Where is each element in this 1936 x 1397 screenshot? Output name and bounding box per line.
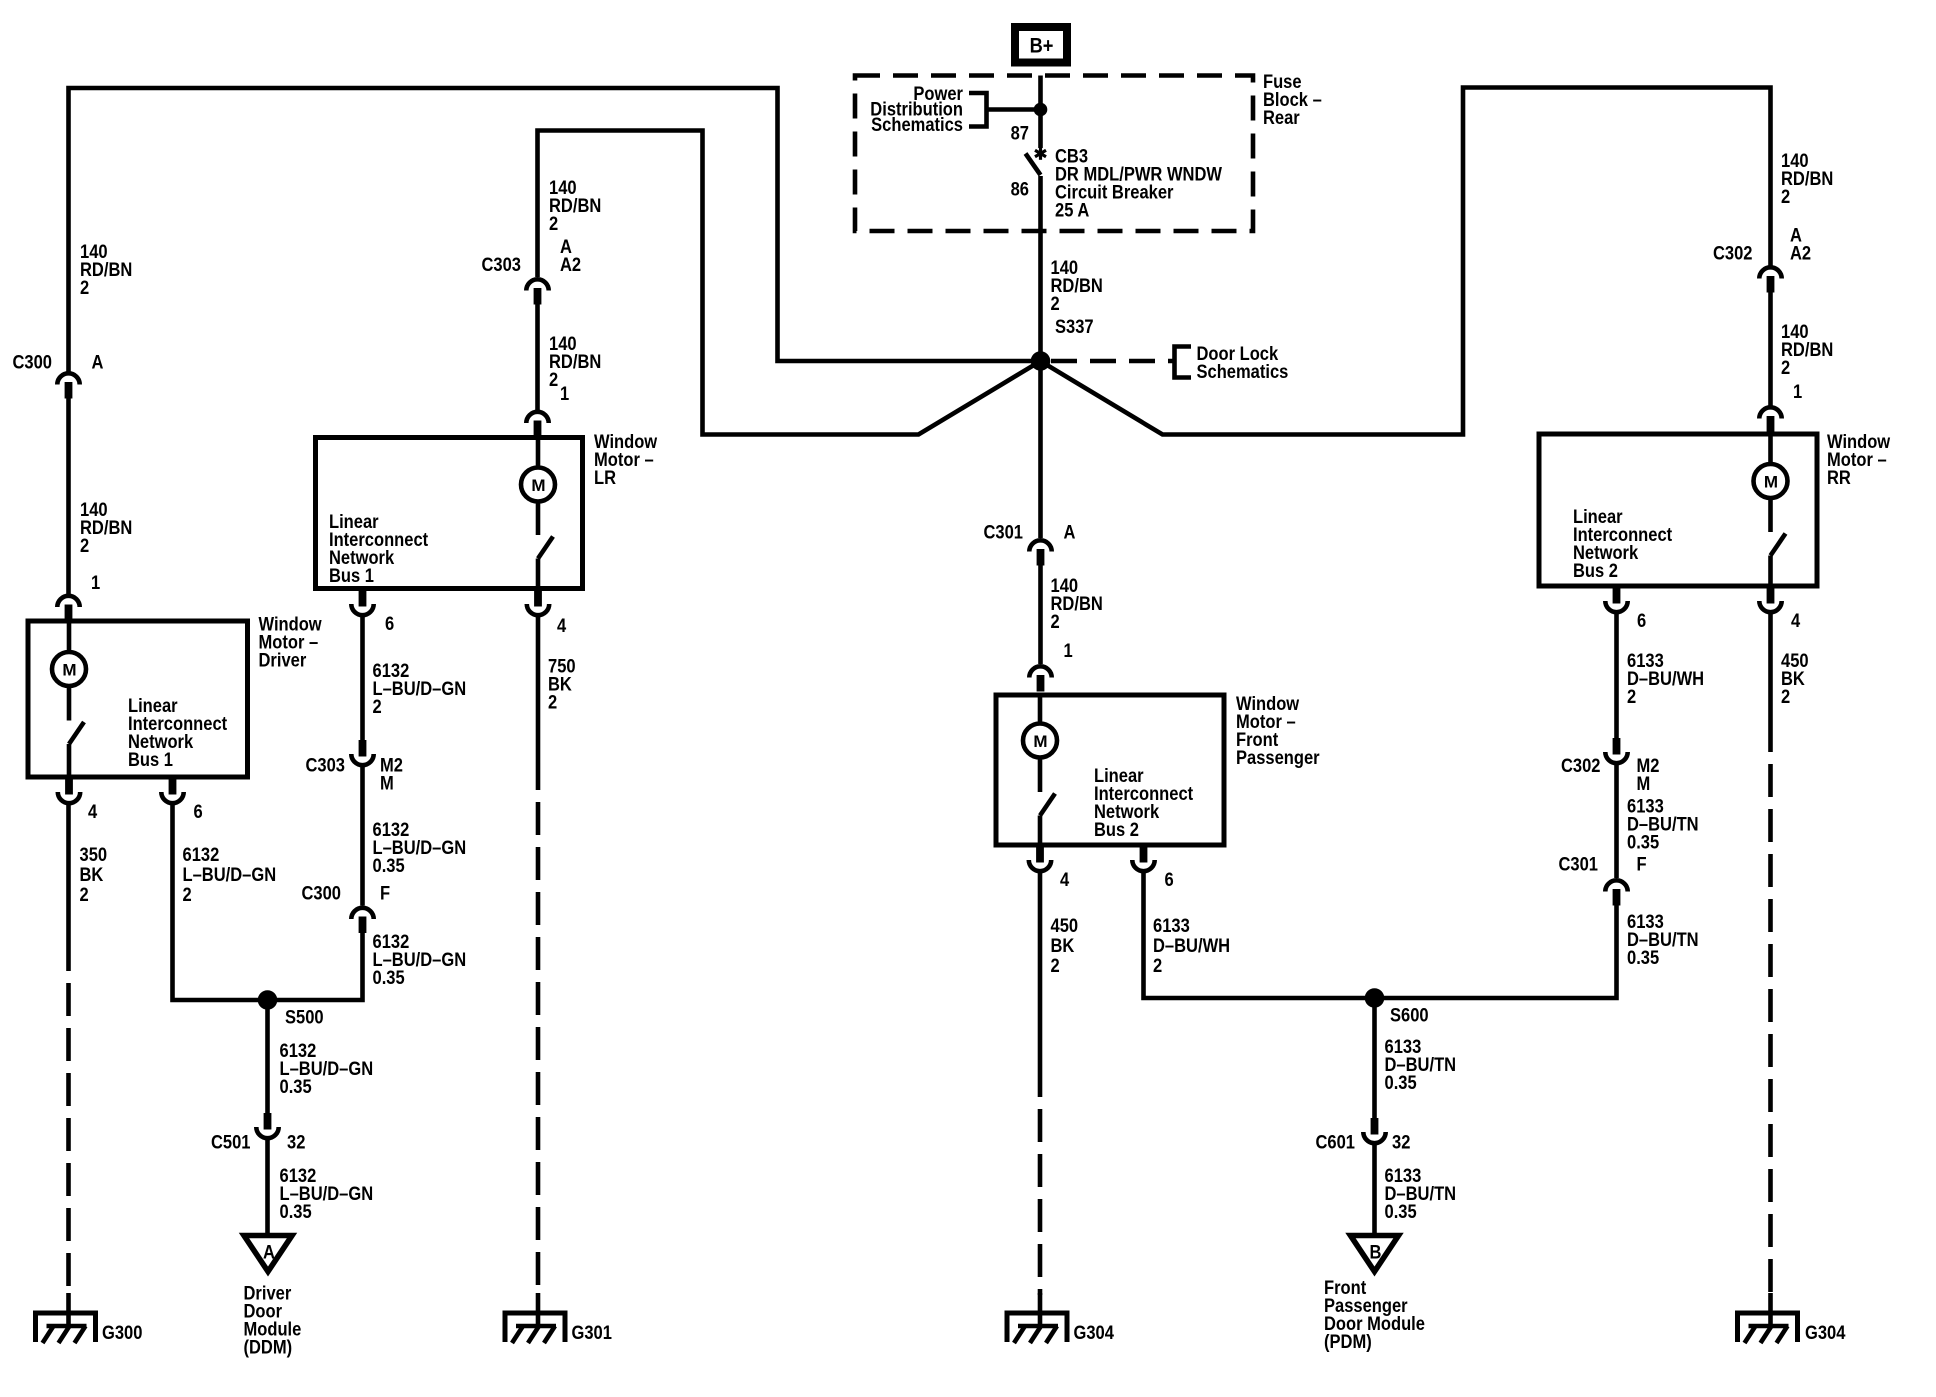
connector C302 cavity A/A2 <box>1759 267 1781 292</box>
wire FP pin 6 down and right to S600 <box>1144 873 1366 998</box>
connector pin 1 RR window motor <box>1759 407 1781 432</box>
battery feed B+ terminal box <box>1015 27 1067 63</box>
circuit breaker CB3 reset asterisk <box>1035 147 1046 160</box>
connector pin 1 front passenger window motor <box>1029 666 1051 691</box>
wire C501 to DDM triangle <box>265 1140 270 1234</box>
driver motor supply stub <box>67 621 72 652</box>
svg-text:B+: B+ <box>1030 34 1054 57</box>
wire LR pin 6 to C303 M2 <box>360 617 365 740</box>
ground G300 stub <box>66 1293 71 1327</box>
svg-text:S600: S600 <box>1390 1004 1429 1025</box>
door lock schematics reference bracket <box>1175 347 1192 378</box>
node feed junction dot <box>1034 103 1048 117</box>
connector pin 4 RR window motor <box>1759 587 1781 612</box>
wire driver pin 6 down and right to S500 <box>173 805 259 1000</box>
wire breaker 86 down to splice S337 <box>1038 176 1043 355</box>
svg-text:1: 1 <box>1064 640 1073 661</box>
connector C301 cavity A <box>1029 540 1051 565</box>
svg-text:G304: G304 <box>1805 1322 1846 1343</box>
ground G304 centre symbol <box>1007 1313 1067 1343</box>
svg-text:A2: A2 <box>560 254 581 275</box>
svg-text:87: 87 <box>1011 122 1029 143</box>
LR motor wire below M <box>536 502 541 536</box>
svg-text:B: B <box>1370 1241 1382 1262</box>
FP motor breaker blade <box>1040 794 1055 816</box>
circuit breaker CB3 blade <box>1026 154 1041 176</box>
connector C303 cavity M2/M <box>351 740 373 765</box>
svg-text:32: 32 <box>1392 1131 1410 1152</box>
ground G300 symbol <box>36 1313 96 1343</box>
svg-text:A: A <box>263 1241 275 1262</box>
svg-text:G301: G301 <box>572 1322 613 1343</box>
wire bracket to B+ feed <box>987 107 1041 112</box>
svg-text:C501: C501 <box>211 1131 251 1152</box>
connector C301 cavity F <box>1605 880 1627 905</box>
svg-text:G304: G304 <box>1074 1322 1115 1343</box>
svg-text:6: 6 <box>194 801 203 822</box>
svg-text:C301: C301 <box>984 521 1024 542</box>
connector pin 1 LR window motor <box>526 412 548 437</box>
wire S600 down to C601 <box>1372 1007 1377 1118</box>
svg-text:4: 4 <box>1791 610 1800 631</box>
wire RR pin 6 to C302 M2 <box>1614 614 1619 738</box>
svg-text:G300: G300 <box>102 1322 143 1343</box>
svg-text:4: 4 <box>88 801 97 822</box>
svg-text:F: F <box>1637 853 1647 874</box>
svg-text:C302: C302 <box>1713 242 1753 263</box>
connector C601 cavity 32 <box>1363 1118 1385 1143</box>
window motor - RR box <box>1539 434 1817 586</box>
svg-text:M: M <box>531 476 545 495</box>
svg-text:C300: C300 <box>302 882 342 903</box>
window motor - front passenger box <box>996 695 1224 845</box>
wire C303 M to C300 F <box>360 767 365 906</box>
connector C300 cavity A <box>57 373 79 398</box>
svg-text:4: 4 <box>1060 869 1069 890</box>
window motor - LR box <box>316 438 583 589</box>
connector pin 6 driver window motor <box>161 778 183 803</box>
connector pin 6 RR window motor <box>1605 587 1627 612</box>
svg-text:1: 1 <box>1793 381 1802 402</box>
wire FP pin 4 dashed to G304 <box>1038 1064 1043 1295</box>
connector pin 1 driver window motor <box>57 596 79 621</box>
RR motor M circle <box>1754 464 1788 498</box>
svg-text:6: 6 <box>1165 869 1174 890</box>
svg-text:C300: C300 <box>13 351 53 372</box>
wire S337 left / up / across top to C300 <box>69 88 1041 374</box>
node A driver door module terminal <box>244 1236 292 1272</box>
LR motor breaker blade <box>538 537 553 559</box>
FP motor wire below M <box>1038 758 1043 793</box>
RR motor wire to pin <box>1768 556 1773 587</box>
driver motor wire to pin <box>67 744 72 777</box>
connector pin 4 FP window motor <box>1029 846 1051 871</box>
connector pin 6 LR window motor <box>351 590 373 615</box>
svg-text:C303: C303 <box>306 754 346 775</box>
ground G304 centre stub <box>1038 1293 1043 1327</box>
wire LR feed: C303 up, across, down, to splice S337 <box>538 131 1038 435</box>
driver motor breaker blade <box>69 722 84 744</box>
connector pin 4 LR window motor <box>527 590 549 615</box>
FP motor M circle <box>1023 724 1057 758</box>
svg-text:C601: C601 <box>1316 1131 1356 1152</box>
wire driver pin 4 dashed to G300 <box>66 938 71 1295</box>
wire LR pin 4 dashed to G301 <box>536 757 541 1295</box>
driver motor M circle <box>52 652 86 686</box>
splice S337 junction dot <box>1031 351 1051 371</box>
svg-text:32: 32 <box>287 1131 305 1152</box>
svg-text:M: M <box>1033 732 1047 751</box>
connector C302 cavity M2/M <box>1605 738 1627 763</box>
LR motor M circle <box>521 468 555 502</box>
ground G301 stub <box>536 1293 541 1327</box>
driver motor wire below M <box>67 686 72 721</box>
wire LR pin 4 to ground solid part <box>536 617 541 757</box>
svg-text:A2: A2 <box>1790 242 1811 263</box>
splice S600 junction dot <box>1365 988 1385 1008</box>
svg-text:M: M <box>1637 773 1651 794</box>
connector pin 6 FP window motor <box>1132 846 1154 871</box>
wire C302 M to C301 F <box>1614 765 1619 878</box>
svg-text:M: M <box>380 772 394 793</box>
wire C303 to LR motor pin 1 <box>535 305 540 412</box>
wire C302 to RR motor pin 1 <box>1768 293 1773 407</box>
svg-text:1: 1 <box>91 572 100 593</box>
wire B+ down to breaker pin 87 <box>1038 76 1043 149</box>
connector C501 cavity 32 <box>256 1113 278 1138</box>
svg-text:6: 6 <box>1637 610 1646 631</box>
RR motor supply stub <box>1768 434 1773 464</box>
dashed wire S337 to door lock schematics <box>1051 359 1175 364</box>
svg-text:C303: C303 <box>482 254 522 275</box>
fuse block - rear dashed outline <box>855 76 1253 232</box>
ground G301 symbol <box>505 1313 565 1343</box>
svg-text:1: 1 <box>560 383 569 404</box>
connector pin 4 driver window motor <box>58 778 80 803</box>
svg-text:6: 6 <box>385 613 394 634</box>
RR motor wire below M <box>1768 498 1773 532</box>
wire RR pin 4 to ground solid part <box>1768 614 1773 719</box>
FP motor supply stub <box>1038 695 1043 724</box>
svg-text:M: M <box>62 661 76 680</box>
ground G304 right stub <box>1768 1293 1773 1327</box>
window motor - driver box <box>28 621 248 777</box>
svg-text:S337: S337 <box>1055 316 1094 337</box>
RR motor breaker blade <box>1771 534 1786 556</box>
svg-text:86: 86 <box>1011 178 1029 199</box>
FP motor wire to pin <box>1038 816 1043 846</box>
wire FP pin 4 to ground solid part <box>1038 873 1043 1064</box>
wire C300 to driver motor pin 1 <box>66 399 71 596</box>
svg-text:M: M <box>1764 473 1778 492</box>
power distribution schematics reference bracket <box>969 93 987 127</box>
ground G304 right symbol <box>1738 1313 1798 1343</box>
node B front passenger door module terminal <box>1351 1236 1399 1272</box>
connector C300 cavity F <box>351 908 373 933</box>
wire C301 F down and left to S600 <box>1375 906 1617 999</box>
wire C301 to FP motor pin 1 <box>1038 566 1043 665</box>
connector C303 cavity A/A2 <box>526 279 548 304</box>
wire C601 to PDM triangle <box>1372 1145 1377 1234</box>
svg-text:4: 4 <box>557 615 566 636</box>
wire S500 down to C501 <box>265 1009 270 1113</box>
svg-text:F: F <box>380 882 390 903</box>
svg-text:C302: C302 <box>1561 755 1601 776</box>
svg-text:S500: S500 <box>285 1006 324 1027</box>
wire S337 down to C301 <box>1038 370 1043 538</box>
LR motor supply stub <box>536 438 541 468</box>
svg-text:C301: C301 <box>1559 853 1599 874</box>
wire C300 F down and left to S500 <box>277 933 363 1000</box>
wire S337 right / across top to C302 <box>1044 88 1771 435</box>
LR motor wire to pin <box>536 559 541 589</box>
svg-text:Door LockSchematics: Door LockSchematics <box>1197 343 1289 382</box>
wire RR pin 4 dashed to G304 <box>1768 719 1773 1295</box>
splice S500 junction dot <box>258 990 278 1010</box>
svg-text:A: A <box>92 351 104 372</box>
svg-text:A: A <box>1064 521 1076 542</box>
wire driver pin 4 to ground solid part <box>66 805 71 938</box>
